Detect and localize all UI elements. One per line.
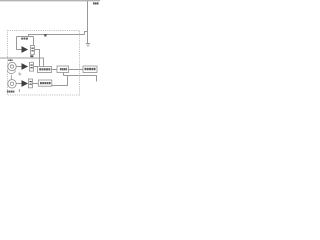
top page border line	[0, 0, 100, 2]
ground	[86, 44, 90, 47]
filter F2 (row2 small box)	[30, 62, 34, 71]
wire box D output rising	[52, 76, 68, 86]
transmitter box B	[57, 66, 69, 73]
label in box A	[39, 68, 50, 70]
external box C	[83, 66, 97, 73]
wire W2 from left edge to modulator	[0, 58, 44, 67]
label in box B	[60, 68, 67, 70]
wire box B bottom out	[63, 73, 65, 76]
filter F3 (row3 small box)	[29, 79, 33, 88]
label 無線機 (top right)	[93, 2, 99, 4]
wire box A to box B	[52, 69, 58, 71]
mark on antenna wire	[44, 34, 47, 35]
wire loop right branch	[33, 37, 35, 46]
stem wire to microphone M2	[10, 75, 12, 80]
wire M1 to amplifier A2	[16, 66, 21, 68]
reference numeral near hook	[18, 72, 21, 75]
wire antenna branch step	[85, 32, 88, 35]
dashed enclosure box	[8, 31, 80, 96]
wire antenna feed (long horizontal)	[28, 34, 85, 36]
wire box B to box C	[69, 69, 84, 71]
amplifier A1 (row1 triangle)	[22, 46, 29, 53]
hook arc below microphone M1	[7, 70, 15, 73]
amplifier A3 (row3 triangle)	[22, 80, 29, 87]
wire loop left branch	[17, 37, 22, 50]
wire M2 to amplifier A3	[16, 83, 21, 85]
wire F3 to modulator box D	[33, 83, 39, 85]
microphone M1	[8, 62, 16, 70]
label above microphone M1	[8, 59, 12, 61]
modulator box D (row3)	[38, 80, 51, 86]
antenna lead wire	[87, 1, 89, 43]
wire F2 to modulator box A	[34, 66, 38, 68]
connector tick below filter F1	[30, 55, 33, 57]
wire coupling loop top	[17, 36, 34, 38]
microphone M2	[8, 80, 16, 88]
label below microphone M2	[7, 91, 14, 93]
wire stub to coupling loop	[28, 35, 30, 37]
filter F1 (row1 small box)	[31, 46, 35, 55]
label in box C	[85, 68, 96, 70]
label on loop	[21, 38, 28, 40]
label in box D	[40, 82, 51, 84]
wire W1 row1 out to modulator	[35, 50, 40, 67]
reference numeral right of M2 label	[19, 89, 20, 92]
wire combined output	[64, 76, 97, 82]
amplifier A2 (row2 triangle)	[22, 63, 29, 70]
modulator box A	[38, 67, 52, 73]
